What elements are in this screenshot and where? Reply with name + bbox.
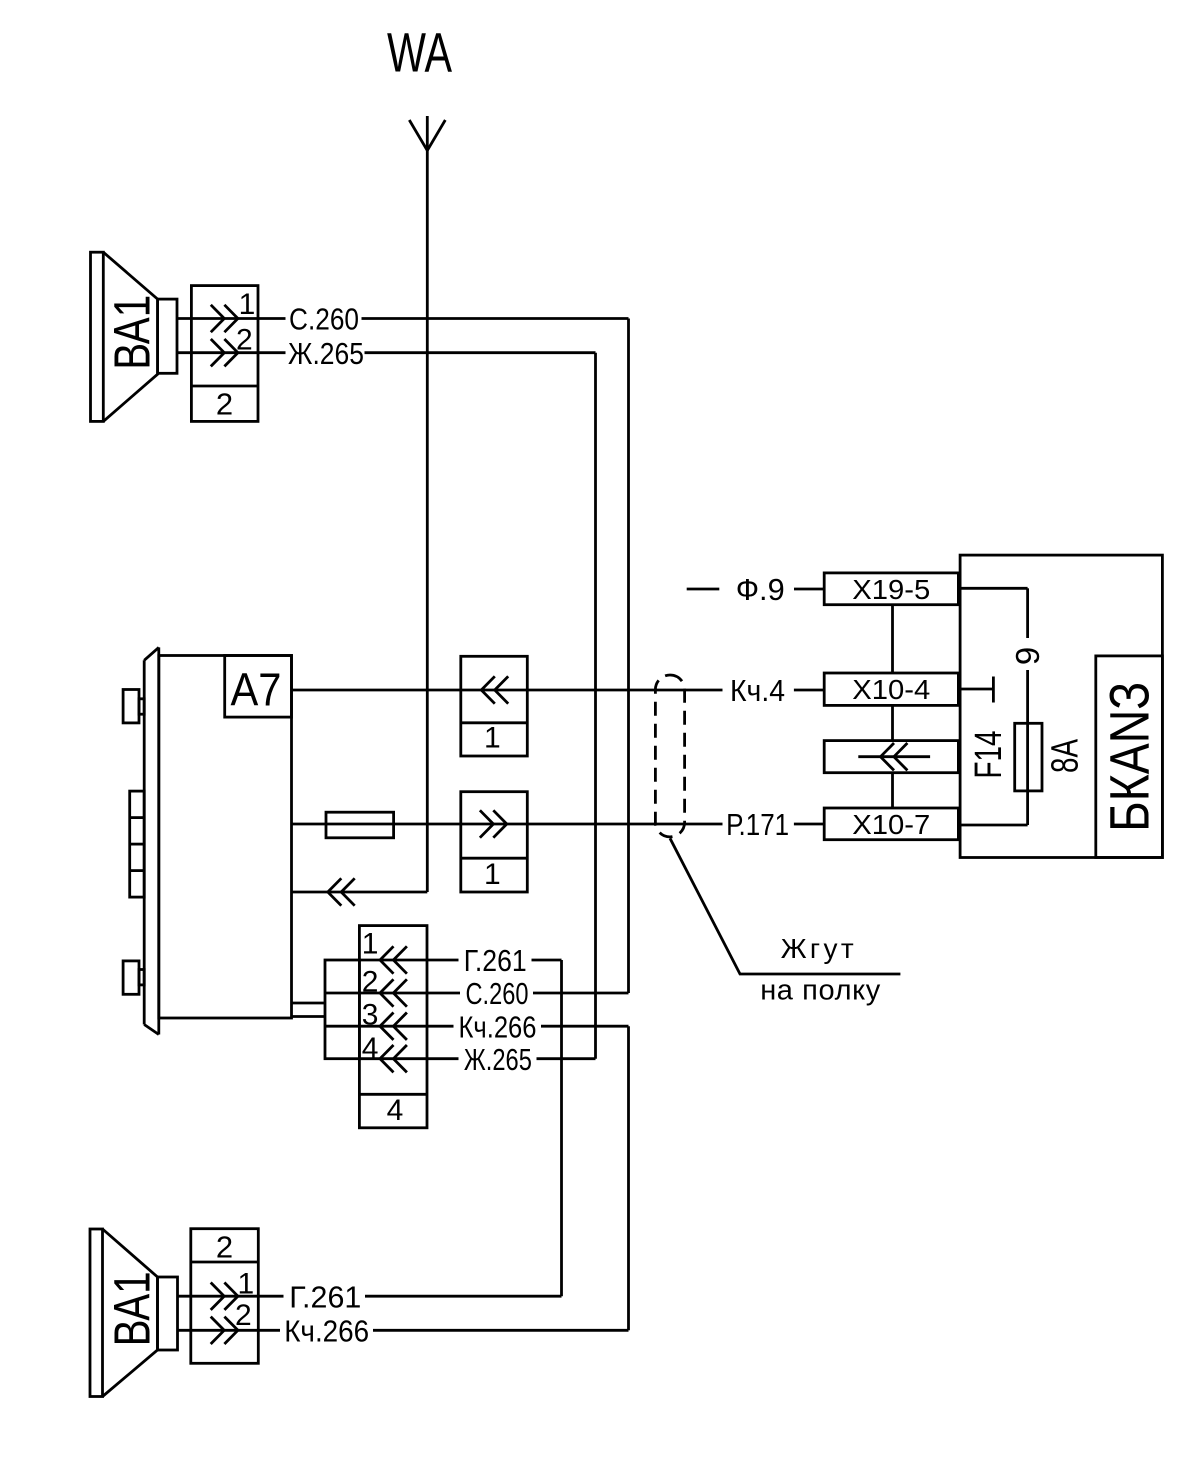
wire Ф.9 stub — [687, 588, 825, 591]
wire Ж.265 vertical bus — [594, 353, 597, 1059]
radio unit A7 body — [159, 647, 292, 1034]
svg-text:Кч.266: Кч.266 — [284, 1313, 369, 1348]
wire Ж.265 top speaker — [177, 351, 596, 354]
connector of bottom speaker (2-pin) — [191, 1229, 258, 1364]
antenna WA — [409, 116, 445, 892]
svg-text:2: 2 — [216, 1230, 233, 1265]
svg-text:БКАNЗ: БКАNЗ — [1098, 682, 1161, 832]
connector X10-4 — [824, 673, 958, 705]
wire C.260 top speaker — [177, 317, 629, 320]
svg-text:1: 1 — [362, 928, 379, 961]
wire C.260 from 4-pin connector — [359, 992, 628, 995]
4-pin connector body — [359, 926, 427, 1128]
antenna plug chevron — [328, 878, 355, 905]
svg-text:X19-5: X19-5 — [852, 574, 930, 605]
A7 designator box — [225, 656, 292, 718]
single-pin connector (plug) on P.171 wire — [461, 792, 528, 892]
antenna feed wire into A7 — [292, 891, 428, 894]
harness leader line — [670, 838, 900, 974]
svg-text:WA: WA — [387, 21, 452, 84]
connector X10-7 — [824, 808, 958, 840]
wire Кч.266 from 4-pin connector — [359, 1025, 628, 1028]
bus comb of 4-pin connector — [325, 960, 359, 1059]
svg-text:Г.261: Г.261 — [289, 1279, 361, 1314]
wire Г.261 bottom speaker — [178, 1295, 562, 1298]
svg-text:Жгут: Жгут — [781, 933, 854, 964]
radio A7 bottom knob — [123, 961, 144, 994]
X10-4 internal stub with terminator — [958, 677, 993, 703]
4-pin connector pin 2 chevron — [380, 979, 407, 1006]
wire Г.261 from 4-pin connector — [359, 959, 561, 962]
svg-text:F14: F14 — [968, 731, 1010, 779]
fuse F14 — [1015, 723, 1042, 791]
wire Ж.265 from 4-pin connector — [359, 1057, 595, 1060]
connector bottom speaker pin 2 chevron — [211, 1317, 238, 1344]
svg-text:ВА1: ВА1 — [104, 295, 161, 370]
svg-text:1: 1 — [239, 288, 256, 321]
intermediate connector chevron box — [824, 741, 958, 773]
svg-text:Ж.265: Ж.265 — [464, 1042, 532, 1077]
wire Кч.4 from A7 to X10-4 — [292, 689, 825, 692]
svg-text:Ф.9: Ф.9 — [736, 572, 785, 607]
svg-text:1: 1 — [484, 721, 501, 754]
svg-text:2: 2 — [216, 387, 233, 422]
svg-text:2: 2 — [235, 1299, 252, 1332]
svg-text:на полку: на полку — [760, 975, 881, 1007]
connector bottom speaker pin 1 chevron — [211, 1283, 238, 1310]
4-pin connector pin 3 chevron — [380, 1013, 407, 1040]
radio A7 top knob — [123, 690, 144, 723]
harness callout dashed oval — [655, 675, 684, 837]
svg-text:9: 9 — [1009, 647, 1046, 665]
svg-text:1: 1 — [484, 858, 501, 891]
svg-text:Кч.4: Кч.4 — [730, 673, 785, 708]
svg-text:8А: 8А — [1044, 739, 1086, 773]
links between X19-5 / X10-4 / chevron box / X10-7 — [891, 605, 894, 808]
svg-text:Ж.265: Ж.265 — [288, 336, 364, 371]
connector of top speaker (2-pin) — [191, 286, 258, 422]
internal circuit 9 wire — [958, 588, 1027, 825]
wire P.171 from A7 to X10-7 — [292, 823, 825, 826]
svg-text:С.260: С.260 — [466, 976, 529, 1011]
speaker BA1 (top) — [91, 252, 178, 421]
svg-text:X10-7: X10-7 — [852, 809, 930, 840]
radio A7 front faceplate — [144, 647, 159, 1034]
svg-text:Кч.266: Кч.266 — [459, 1009, 537, 1044]
svg-text:Р.171: Р.171 — [726, 807, 789, 842]
connector top speaker pin 2 chevron — [211, 339, 238, 366]
svg-text:ВА1: ВА1 — [104, 1271, 161, 1346]
svg-text:Г.261: Г.261 — [464, 943, 527, 978]
wire Г.261 vertical bus — [560, 960, 563, 1296]
wire C.260 vertical bus — [627, 319, 630, 994]
speaker BA1 (bottom) — [90, 1229, 178, 1397]
svg-text:X10-4: X10-4 — [852, 674, 930, 705]
svg-text:4: 4 — [387, 1094, 404, 1127]
4-pin connector pin 1 chevron — [380, 946, 407, 973]
single-pin connector (socket) on Кч.4 wire — [461, 656, 528, 756]
svg-text:С.260: С.260 — [289, 302, 359, 337]
wire Кч.266 bottom speaker — [178, 1329, 629, 1332]
in-line fuse holder on P.171 wire — [326, 812, 394, 838]
connector X19-5 — [824, 573, 958, 605]
ribbon wires from A7 to 4-pin connector — [292, 1003, 326, 1017]
BKAN3 unit body — [960, 555, 1162, 857]
wire Кч.266 vertical bus — [627, 1026, 630, 1330]
4-pin connector pin 4 chevron — [380, 1045, 407, 1072]
connector top speaker pin 1 chevron — [211, 305, 238, 332]
radio A7 buttons — [130, 791, 145, 897]
svg-text:A7: A7 — [231, 664, 282, 716]
